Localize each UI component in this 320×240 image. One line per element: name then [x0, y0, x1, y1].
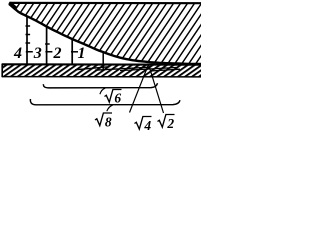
curve: [9, 3, 201, 65]
ticks on A: [26, 26, 33, 52]
pointer to sqrt2: [149, 64, 164, 113]
sqrt2 label: [158, 115, 175, 131]
ordinate A: [26, 16, 28, 64]
hatched wedge region between top line and curve: [9, 3, 201, 65]
ordinate D: [102, 52, 104, 71]
pointer to sqrt4: [130, 64, 149, 112]
ticks on B: [45, 44, 52, 52]
tick on C: [71, 51, 78, 53]
strip left edge: [1, 64, 3, 78]
svg-text:2: 2: [166, 116, 174, 131]
strip top edge: [2, 63, 201, 66]
lower brace: [30, 99, 180, 105]
upper brace center cusp: [100, 88, 105, 94]
svg-text:3: 3: [33, 45, 42, 62]
svg-text:1: 1: [78, 45, 86, 62]
svg-text:4: 4: [143, 118, 151, 133]
ordinate B: [46, 26, 48, 64]
top line: [9, 2, 201, 4]
lower brace center cusp: [107, 105, 113, 111]
ordinate C: [71, 39, 73, 64]
svg-text:2: 2: [53, 45, 62, 62]
ground strip hatched: [2, 64, 201, 77]
wedge tip solid blob: [10, 3, 16, 8]
dense shading band inside strip: [75, 67, 180, 71]
upper brace: [43, 83, 157, 88]
sqrt6 label: [105, 90, 122, 106]
strip bottom edge: [2, 76, 201, 78]
svg-text:6: 6: [114, 90, 121, 105]
sqrt4 label: [135, 117, 152, 133]
svg-text:4: 4: [13, 45, 22, 62]
sqrt8 label: [95, 113, 112, 129]
svg-text:8: 8: [105, 114, 112, 129]
